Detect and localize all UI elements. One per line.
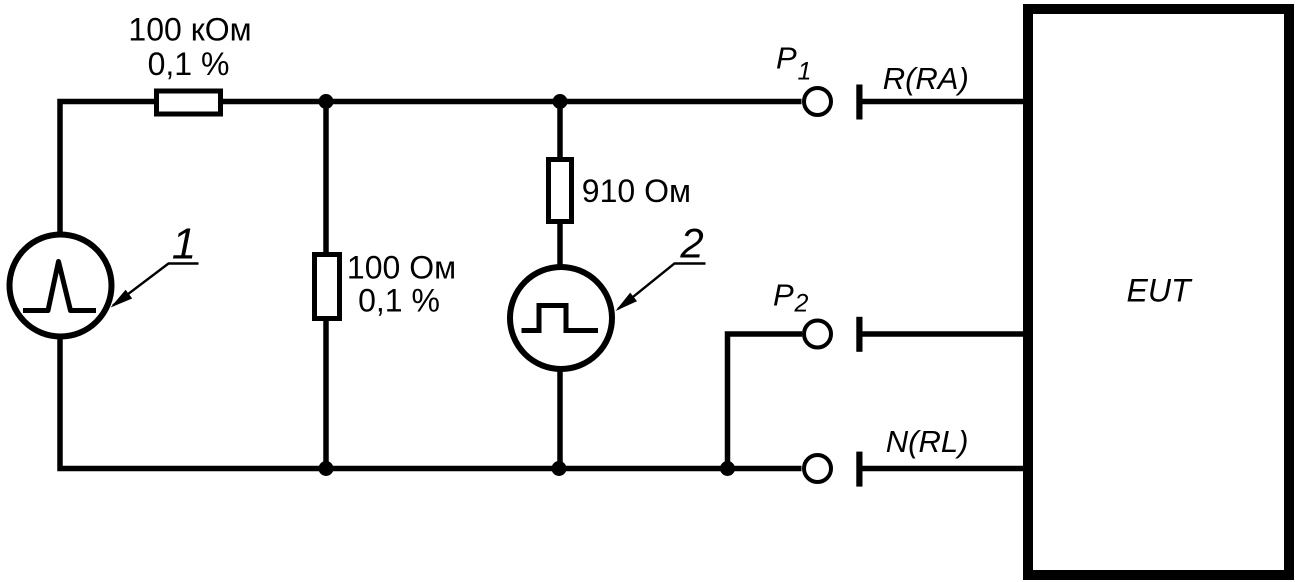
svg-text:P: P <box>773 278 794 313</box>
EUT box <box>1028 9 1289 575</box>
wire bar3 to EUT <box>862 466 1024 472</box>
svg-text:N(RL): N(RL) <box>886 424 969 459</box>
leader arrow for generator 1 <box>113 264 199 306</box>
contact bar N <box>856 452 862 487</box>
svg-text:2: 2 <box>794 290 809 318</box>
contact bar P2 <box>856 317 862 352</box>
terminal N circle <box>804 455 831 482</box>
junction dot bottom x=326 <box>319 461 334 476</box>
svg-text:0,1 %: 0,1 % <box>358 283 440 319</box>
junction dot bottom x=559 <box>552 461 567 476</box>
svg-text:R(RA): R(RA) <box>883 61 969 96</box>
wire left vertical + top rail <box>60 102 802 237</box>
resistor R3 910 Ohm <box>549 160 572 222</box>
resistor R2 100 Ohm <box>315 255 340 319</box>
svg-text:100 Ом: 100 Ом <box>347 250 456 286</box>
svg-text:1: 1 <box>172 220 196 269</box>
resistor R1 100 kOhm <box>157 91 221 114</box>
svg-text:910 Ом: 910 Ом <box>582 173 691 209</box>
junction dot top x=326 <box>319 94 334 109</box>
wire middle vertical (node at x=326) <box>323 102 329 469</box>
svg-text:EUT: EUT <box>1127 273 1193 309</box>
contact bar P1 <box>856 85 862 120</box>
wire bar2 to EUT <box>862 331 1024 337</box>
terminal P2 circle <box>804 321 831 348</box>
wire vertical at x=560 <box>557 102 563 469</box>
wire bar1 to EUT <box>862 99 1024 105</box>
svg-text:1: 1 <box>798 58 812 86</box>
svg-text:2: 2 <box>679 220 703 267</box>
generator 2 square pulse symbol <box>522 306 599 331</box>
junction dot bottom x=727.5 <box>720 461 735 476</box>
svg-text:100 кОм: 100 кОм <box>128 12 251 48</box>
leader arrow for generator 2 <box>618 264 706 310</box>
wire P2 branch <box>728 334 803 469</box>
terminal P1 circle <box>804 88 831 115</box>
generator 1 impulse symbol <box>23 262 96 311</box>
junction dot top x=560 <box>553 94 568 109</box>
svg-text:P: P <box>776 40 797 75</box>
svg-text:0,1 %: 0,1 % <box>148 46 230 82</box>
generator 1 circle <box>10 235 112 337</box>
generator 2 circle <box>510 267 612 369</box>
wire left vertical bottom + bottom rail <box>60 336 802 469</box>
